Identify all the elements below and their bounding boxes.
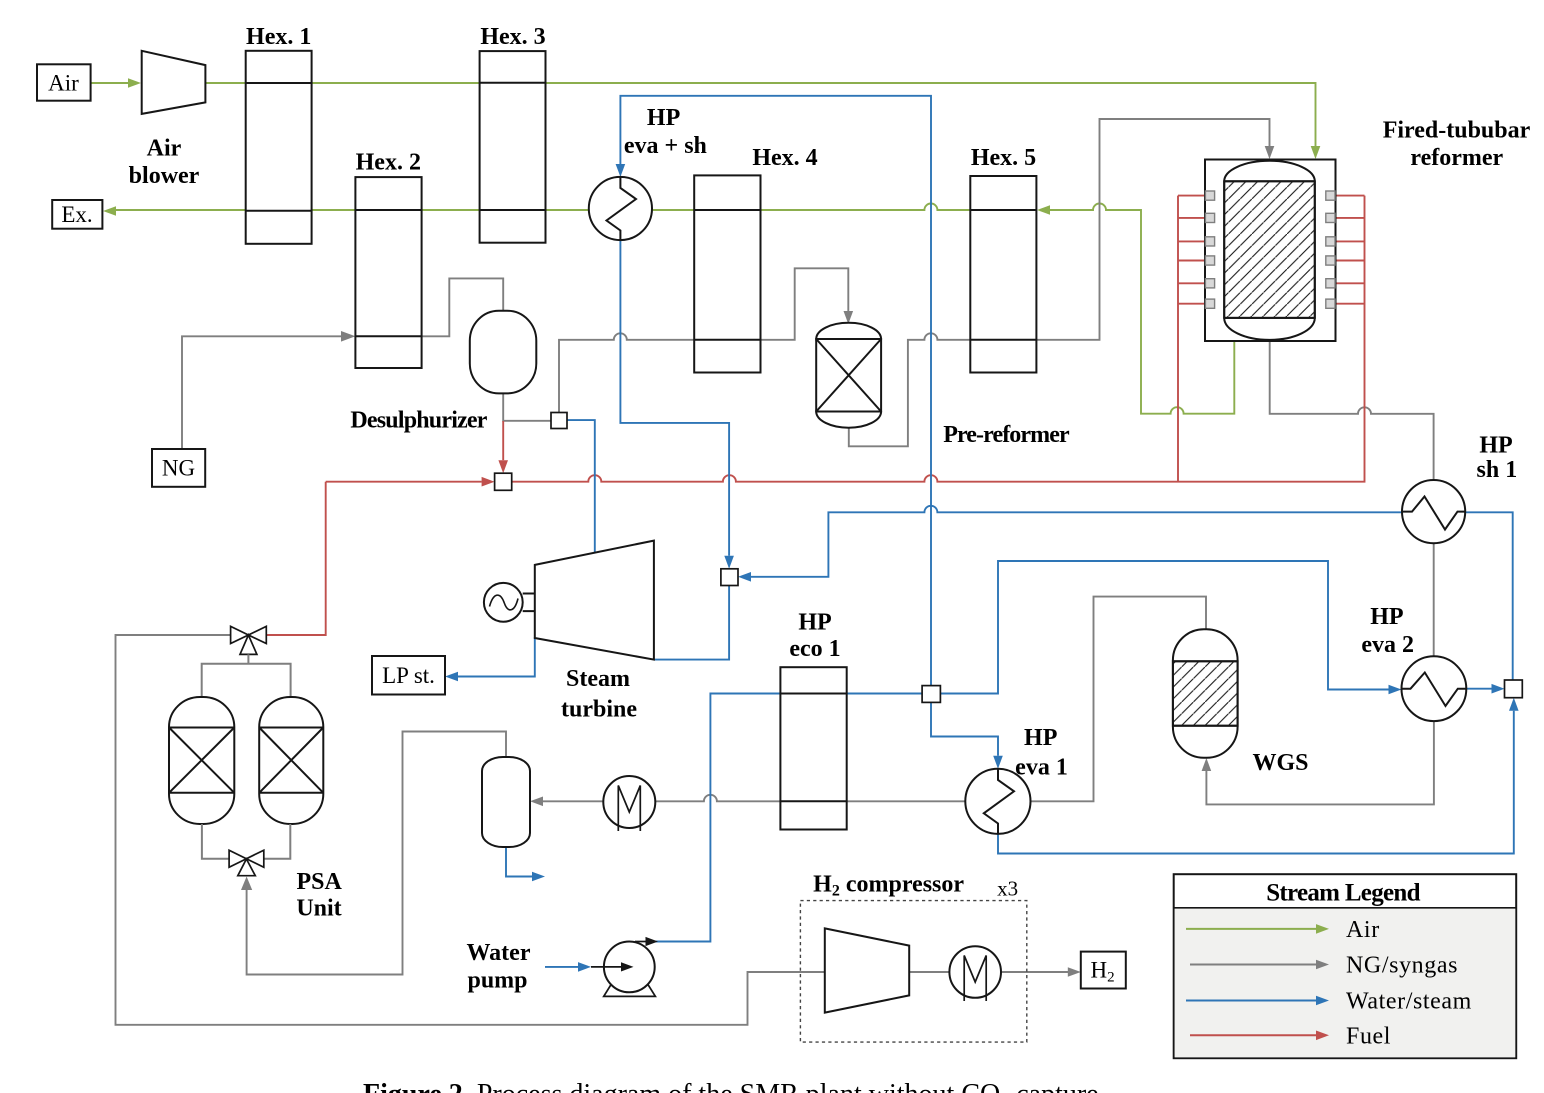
svg-text:Fuel: Fuel bbox=[1346, 1023, 1391, 1049]
wire: drum square to HP eva 1 bbox=[931, 702, 998, 755]
arrowhead steam up into junction square bbox=[1509, 698, 1519, 711]
burner stub left 3 bbox=[1178, 240, 1205, 242]
junction square: fuel mixer bbox=[495, 473, 512, 490]
arrowhead syngas feed into reformer top bbox=[1265, 146, 1275, 159]
svg-text:WGS: WGS bbox=[1252, 750, 1308, 776]
PSA bottom manifold piping bbox=[202, 824, 290, 859]
wire: turbine extraction steam to NG mixer square bbox=[567, 420, 595, 556]
wire: air feed from Air box to blower bbox=[91, 82, 128, 84]
generator circle with sine bbox=[484, 583, 523, 622]
air blower bbox=[142, 51, 206, 114]
wire: fuel header to fuel mixer square bbox=[326, 481, 482, 483]
svg-text:Hex. 2: Hex. 2 bbox=[356, 150, 421, 176]
wire: HP eva+sh outlet down and to turbine inlet square bbox=[620, 240, 729, 556]
wire: syngas from HP sh 1 to HP eva 2 bbox=[1433, 543, 1435, 656]
heat exchanger Hex. 2 bbox=[355, 177, 421, 368]
svg-text:pump: pump bbox=[467, 968, 527, 994]
wire: NG slip from desulphurizer junction down to fuel mixer square bbox=[502, 421, 504, 460]
arrowhead feed into pre-reformer top bbox=[844, 311, 854, 324]
H2 compressor body bbox=[825, 928, 909, 1012]
burner stub left 1 bbox=[1178, 195, 1205, 197]
svg-text:Pre-reformer: Pre-reformer bbox=[943, 422, 1070, 448]
heat exchanger HP sh 1 (circle with zigzag) bbox=[1402, 480, 1465, 543]
arrowhead air into blower bbox=[128, 78, 141, 88]
arrowhead blowdown bbox=[532, 872, 545, 882]
svg-text:eva 2: eva 2 bbox=[1361, 632, 1414, 658]
LP st. box bbox=[372, 656, 445, 695]
compressor motor M circle bbox=[949, 946, 1001, 1001]
svg-text:NG/syngas: NG/syngas bbox=[1346, 953, 1458, 979]
reformer burners left (6 squares) bbox=[1205, 191, 1214, 308]
wire: syngas from cooler M to flash vessel bbox=[543, 800, 603, 802]
svg-text:HP: HP bbox=[1024, 725, 1057, 751]
arrowhead fuel into mixer square bbox=[482, 477, 495, 487]
svg-text:eva 1: eva 1 bbox=[1015, 754, 1068, 780]
PSA top manifold piping bbox=[202, 654, 291, 697]
wire: pre-reformer outlet up through Hex5 toward reformer bbox=[849, 119, 1270, 446]
svg-text:Desulphurizer: Desulphurizer bbox=[350, 408, 487, 434]
burner stub left 2 bbox=[1178, 217, 1205, 219]
wire: syngas from HP eva 2 down and left to WGS bottom bbox=[1206, 721, 1434, 804]
PSA adsorber vessel B bbox=[259, 697, 323, 824]
burner stub left 4 bbox=[1178, 260, 1205, 262]
arrowhead steam into turbine inlet square from right bbox=[738, 572, 751, 582]
wire: pump discharge up to HP eco 1 bbox=[655, 694, 922, 942]
PSA bottom valve (3-way) bbox=[229, 850, 264, 876]
burner stub right 2 bbox=[1335, 217, 1365, 219]
svg-text:Air: Air bbox=[48, 71, 79, 96]
svg-text:x3: x3 bbox=[997, 877, 1018, 901]
arrowhead water into HP eva 2 bbox=[1389, 685, 1402, 695]
arrowhead raw H2 into PSA bottom valve bbox=[241, 877, 252, 891]
wire: exhaust from Hex5 through Hex4, eva+sh, Hex3, Hex2, Hex1 to Ex box bbox=[114, 204, 1037, 211]
svg-text:Air: Air bbox=[1346, 917, 1380, 943]
svg-text:Hex. 1: Hex. 1 bbox=[246, 24, 311, 50]
cooler M circle bbox=[603, 776, 655, 831]
H2 compressor dashed enclosure bbox=[800, 901, 1026, 1043]
steam turbine bbox=[535, 541, 654, 660]
svg-text:eva + sh: eva + sh bbox=[624, 133, 707, 159]
wire: compressor shaft line to M motor bbox=[909, 971, 949, 973]
arrowhead NG into Hex 2 bbox=[341, 331, 355, 342]
arrowhead LP steam into LP st. box bbox=[445, 672, 458, 682]
heat exchanger Hex. 3 bbox=[480, 51, 546, 243]
svg-text:Water: Water bbox=[467, 940, 531, 966]
wire: drum square to HP eva 2 bbox=[940, 561, 1388, 694]
wire: superheated steam from HP sh 1 to turbine inlet square bbox=[751, 506, 1402, 577]
reformer inner vessel with catalyst hatch bbox=[1224, 161, 1315, 340]
wire: flash vessel top gas to PSA unit bbox=[247, 732, 506, 975]
svg-text:Hex. 4: Hex. 4 bbox=[752, 145, 817, 171]
arrowhead exhaust into Hex 5 bbox=[1037, 205, 1050, 215]
wire: fuel purge from PSA top valve to fuel header bbox=[266, 482, 325, 635]
flash vessel (condensate separator) bbox=[482, 757, 530, 847]
arrowhead exhaust into Ex box bbox=[103, 206, 116, 216]
PSA top valve (3-way) bbox=[231, 626, 267, 654]
burner stub right 3 bbox=[1335, 240, 1365, 242]
heat exchanger HP eva 2 (circle with zigzag) bbox=[1402, 656, 1467, 721]
svg-text:Hex. 5: Hex. 5 bbox=[971, 145, 1036, 171]
heat exchanger HP eva 1 (circle with zigzag) bbox=[965, 769, 1030, 834]
svg-text:sh 1: sh 1 bbox=[1477, 457, 1518, 483]
burner stub right 1 bbox=[1335, 195, 1365, 197]
svg-text:HP: HP bbox=[1370, 604, 1403, 630]
PSA adsorber vessel A bbox=[169, 697, 234, 824]
svg-text:PSA: PSA bbox=[297, 869, 343, 895]
svg-text:reformer: reformer bbox=[1410, 145, 1503, 171]
burner stub right 6 bbox=[1335, 303, 1365, 305]
arrowhead syngas into flash vessel bbox=[530, 797, 543, 807]
desulphurizer vessel bbox=[470, 311, 537, 394]
svg-text:Hex. 3: Hex. 3 bbox=[480, 24, 545, 50]
reformer burners right (6 squares) bbox=[1326, 191, 1335, 308]
wire: fuel from mixer square to reformer burners bbox=[512, 196, 1365, 482]
wire: steam drum riser to HP eva+sh bbox=[620, 96, 931, 686]
svg-text:Air: Air bbox=[147, 136, 182, 162]
legend arrow: Fuel bbox=[1190, 1031, 1329, 1041]
heat exchanger Hex. 5 bbox=[970, 176, 1036, 373]
arrowhead steam into turbine inlet square bbox=[724, 556, 734, 569]
svg-text:LP st.: LP st. bbox=[382, 663, 435, 688]
wire: NG from NG box up and into Hex2 bbox=[182, 336, 342, 449]
H2 product box bbox=[1081, 952, 1126, 989]
wire: fuel branch to left burner rail bbox=[1177, 196, 1179, 482]
junction square: NG + steam mixer bbox=[551, 413, 567, 429]
burner stub right 5 bbox=[1335, 282, 1365, 284]
arrowhead syngas into WGS bottom bbox=[1202, 758, 1212, 771]
Air source box bbox=[37, 64, 91, 100]
arrowhead H2 into H2 box bbox=[1068, 967, 1081, 977]
svg-text:HP: HP bbox=[647, 105, 680, 131]
burner stub right 4 bbox=[1335, 260, 1365, 262]
fired tubular reformer outer box bbox=[1205, 160, 1336, 342]
wire: turbine main steam inlet from square bottom bbox=[654, 586, 729, 660]
wire: water inlet to pump bbox=[545, 966, 578, 968]
burner stub left 6 bbox=[1178, 303, 1205, 305]
arrowhead water into HP eva 1 top bbox=[993, 756, 1003, 769]
wire: syngas from HP eva 1 left through HP eco 1 to cooler M bbox=[655, 795, 965, 802]
arrowhead air into reformer top bbox=[1311, 146, 1321, 159]
arrowhead water into pump bbox=[578, 962, 591, 972]
generator shaft bbox=[523, 594, 535, 612]
wire: compressed H2 from motor M to H2 box bbox=[1001, 971, 1068, 973]
WGS reactor vessel bbox=[1173, 629, 1238, 758]
wire: HP eva 1 outlet bottom loop to junction square bbox=[998, 711, 1514, 854]
wire: mixed feed from mixer square up and right to pre-reformer bbox=[559, 268, 848, 412]
heat exchanger Hex. 1 bbox=[246, 51, 312, 244]
wire: HP eva 2 outlet to junction square bbox=[1466, 688, 1491, 690]
svg-text:eco 1: eco 1 bbox=[789, 636, 840, 662]
wire: flash vessel blowdown bbox=[506, 847, 532, 877]
water pump bbox=[591, 937, 658, 997]
pre-reformer vessel bbox=[816, 323, 881, 428]
svg-text:turbine: turbine bbox=[561, 697, 637, 723]
wire: WGS top outlet to HP eva 1 bbox=[1031, 597, 1206, 802]
junction square: steam collector at eva 2 bbox=[1505, 680, 1523, 698]
heat exchanger HP eco 1 bbox=[780, 667, 846, 829]
legend arrow: Water/steam bbox=[1186, 996, 1329, 1006]
heat exchanger HP eva + sh (circle with zigzag) bbox=[589, 177, 652, 240]
heat exchanger Hex. 4 bbox=[694, 175, 760, 372]
wire: air from blower along top to reformer bbox=[205, 83, 1315, 150]
wire: exhaust from reformer bottom to Hex5 bbox=[1050, 204, 1234, 414]
arrowhead steam into HP eva+sh top bbox=[616, 164, 626, 177]
svg-text:Steam: Steam bbox=[566, 666, 630, 692]
wire: desulphurizer bottom to junction bbox=[503, 393, 551, 420]
wire: turbine LP steam outlet to LP st. box bbox=[458, 637, 535, 677]
wire: syngas from reformer bottom to HP sh 1 bbox=[1270, 341, 1434, 480]
svg-text:HP: HP bbox=[1479, 433, 1512, 459]
wire: PSA H2 product to H2 compressor bbox=[116, 635, 825, 1025]
svg-text:HP: HP bbox=[798, 610, 831, 636]
legend arrow: Air bbox=[1186, 924, 1329, 934]
Ex. exhaust box bbox=[52, 200, 102, 229]
svg-text:Unit: Unit bbox=[296, 896, 341, 922]
wire: HP sh 1 right to eva2 junction square bbox=[1465, 512, 1513, 680]
stream legend box bbox=[1174, 874, 1517, 1058]
legend arrow: NG/syngas bbox=[1190, 960, 1329, 970]
NG source box bbox=[152, 449, 205, 487]
burner stub left 5 bbox=[1178, 282, 1205, 284]
junction square: steam drum bbox=[922, 686, 940, 703]
svg-text:Fired-tububar: Fired-tububar bbox=[1383, 118, 1531, 144]
arrowhead eva2 steam into junction square bbox=[1492, 684, 1505, 694]
svg-text:blower: blower bbox=[129, 163, 200, 189]
junction square: turbine steam inlet bbox=[721, 569, 738, 586]
svg-text:Stream Legend: Stream Legend bbox=[1266, 880, 1420, 907]
svg-text:Water/steam: Water/steam bbox=[1346, 989, 1472, 1015]
wire: NG from Hex2 jog into desulphurizer top bbox=[422, 278, 504, 336]
svg-text:Figure 2. Process diagram of t: Figure 2. Process diagram of the SMR pla… bbox=[363, 1079, 1106, 1093]
svg-text:Ex.: Ex. bbox=[61, 202, 92, 227]
svg-text:NG: NG bbox=[162, 456, 195, 481]
arrowhead NG slip into mixer square bbox=[498, 460, 508, 473]
